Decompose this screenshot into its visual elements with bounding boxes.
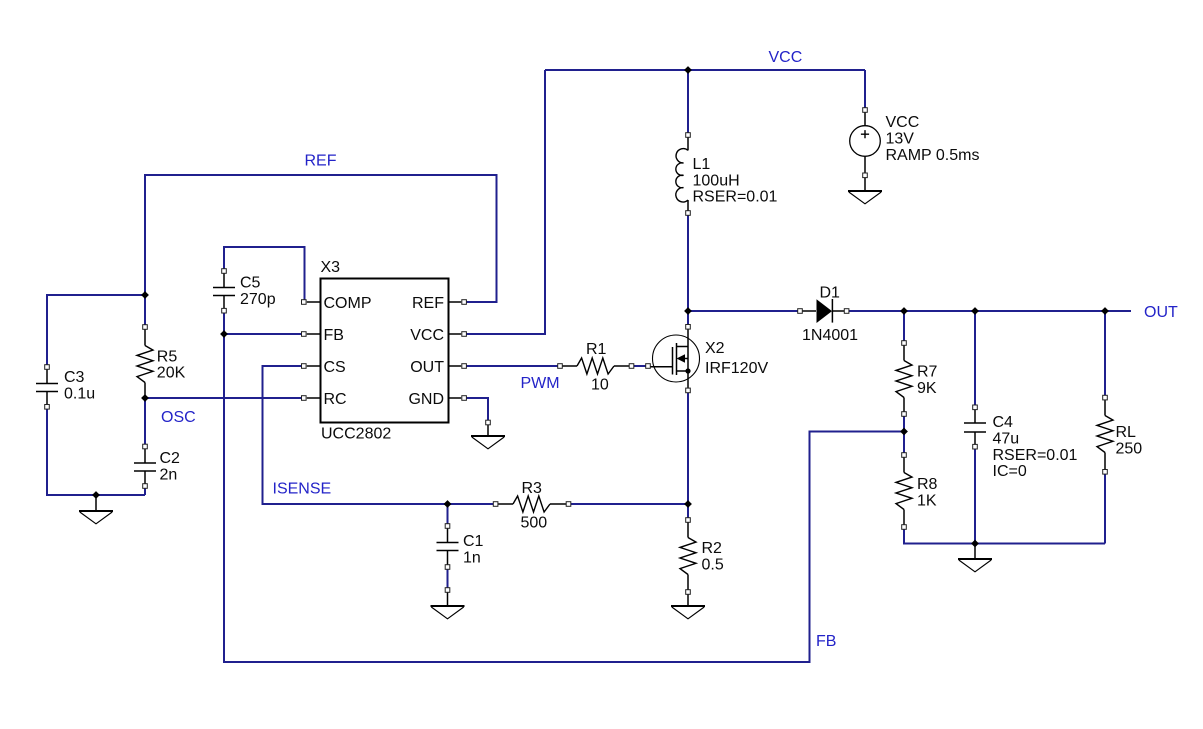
svg-text:OSC: OSC: [161, 409, 196, 426]
svg-text:20K: 20K: [157, 365, 186, 382]
svg-text:250: 250: [1116, 440, 1143, 457]
svg-text:R8: R8: [917, 476, 938, 493]
wire C2 bottom leg: [144, 486, 146, 495]
wire C5 bottom to FB pin: [224, 311, 301, 334]
wire VCC source top leg: [864, 70, 866, 110]
wire ground stub left: [95, 495, 97, 511]
label X3: [321, 259, 341, 276]
node junction ground rail: [971, 540, 979, 548]
value C1 1n: [463, 533, 484, 566]
wire node REF to C3 top: [47, 295, 145, 367]
value R2 0.5: [702, 540, 724, 573]
pin RC: [324, 391, 347, 408]
capacitor C3: [36, 365, 58, 409]
resistor R2: [680, 518, 696, 595]
wire C4 top leg: [974, 311, 976, 407]
wire C4 bottom leg: [974, 447, 976, 544]
wire D1 cathode to OUT label: [847, 310, 1131, 312]
capacitor C5: [213, 269, 235, 313]
resistor R8: [896, 453, 912, 530]
node junction left ground: [92, 491, 100, 499]
svg-text:OUT: OUT: [410, 359, 444, 376]
wire REF net: [145, 175, 497, 327]
svg-text:C2: C2: [160, 450, 181, 467]
ground X3 GND pin: [471, 420, 505, 449]
svg-text:R7: R7: [917, 364, 938, 381]
svg-text:R1: R1: [586, 341, 607, 358]
node junction OUT/R7: [900, 307, 908, 315]
node junction OUT/RL: [1101, 307, 1109, 315]
wire L1 bottom to OUT node: [687, 213, 689, 311]
wire VCC source bottom to ground: [864, 175, 866, 191]
node junction ISENSE/C1: [444, 500, 452, 508]
svg-text:ISENSE: ISENSE: [273, 481, 332, 498]
ground VCC source: [848, 191, 882, 204]
value RL 250: [1116, 424, 1143, 457]
svg-text:RSER=0.01: RSER=0.01: [993, 447, 1078, 464]
wire C1 bottom to ground flag: [447, 567, 449, 590]
value L1 100uH RSER: [693, 156, 778, 206]
node junction R3/R2: [684, 500, 692, 508]
svg-text:PWM: PWM: [521, 375, 560, 392]
svg-text:VCC: VCC: [410, 327, 444, 344]
svg-text:47u: 47u: [993, 430, 1020, 447]
svg-text:IC=0: IC=0: [993, 463, 1027, 480]
wire R7 top leg: [903, 311, 905, 343]
capacitor C2: [134, 444, 156, 488]
pin FB: [324, 327, 344, 344]
pin REF: [412, 295, 444, 312]
wire R1 to gate: [632, 365, 649, 367]
value R8 1K: [917, 476, 938, 509]
capacitor C4: [964, 405, 986, 449]
wire ground stub C1: [447, 590, 449, 606]
svg-text:R5: R5: [157, 348, 178, 365]
svg-text:270p: 270p: [240, 291, 276, 308]
svg-text:X2: X2: [705, 340, 725, 357]
wire ground stub X3: [487, 423, 489, 437]
inductor L1: [676, 133, 690, 216]
net label VCC: [769, 49, 803, 66]
svg-text:10: 10: [591, 377, 609, 394]
net label ISENSE: [273, 481, 332, 498]
svg-text:1n: 1n: [463, 549, 481, 566]
svg-text:VCC: VCC: [886, 114, 920, 131]
svg-text:100uH: 100uH: [693, 172, 740, 189]
resistor R5: [137, 325, 153, 398]
svg-text:0.5: 0.5: [702, 556, 724, 573]
value R1 10: [586, 341, 609, 394]
svg-text:9K: 9K: [917, 380, 937, 397]
svg-text:FB: FB: [324, 327, 344, 344]
pin GND: [408, 391, 444, 408]
svg-text:RC: RC: [324, 391, 347, 408]
svg-text:R2: R2: [702, 540, 723, 557]
diode D1 1N4001: [798, 299, 849, 323]
node junction OUT/C4: [971, 307, 979, 315]
svg-text:CS: CS: [324, 359, 346, 376]
net label FB: [816, 633, 836, 650]
svg-text:13V: 13V: [886, 130, 915, 147]
pin VCC: [410, 327, 444, 344]
svg-text:1K: 1K: [917, 492, 937, 509]
resistor R3: [493, 496, 570, 512]
resistor R7: [896, 341, 912, 417]
net label PWM: [521, 375, 560, 392]
wire X2 drain to OUT node: [687, 311, 689, 327]
wire OSC node to RC pin: [145, 397, 301, 399]
wire L1 top leg: [687, 70, 689, 135]
wire OUT node to D1 anode: [688, 310, 800, 312]
ground output filter: [958, 559, 992, 572]
wire C3 bottom to ground rail: [47, 407, 145, 495]
value C4 47u RSER IC: [993, 414, 1078, 480]
wire X2 source down to R2: [687, 390, 689, 520]
svg-text:X3: X3: [321, 259, 341, 276]
node junction VCC/L1: [684, 66, 692, 74]
svg-text:OUT: OUT: [1144, 304, 1178, 321]
ground R2: [671, 606, 705, 619]
svg-text:GND: GND: [408, 391, 444, 408]
pin OUT: [410, 359, 444, 376]
wire ground stub output: [974, 544, 976, 560]
wire VCC top rail: [545, 69, 865, 71]
value C3 0.1u: [64, 369, 95, 402]
pin CS: [324, 359, 346, 376]
voltage source V1 VCC: [850, 108, 881, 178]
svg-text:FB: FB: [816, 633, 836, 650]
svg-text:COMP: COMP: [324, 295, 372, 312]
transistor Q1: X2 IRF120V MOSFET: [646, 325, 700, 393]
svg-text:IRF120V: IRF120V: [705, 360, 768, 377]
wire C5 top to COMP pin: [224, 247, 305, 302]
svg-text:2n: 2n: [160, 466, 178, 483]
svg-text:0.1u: 0.1u: [64, 385, 95, 402]
node junction R7/R8 FB tap: [900, 428, 908, 436]
wire C1 top leg: [447, 504, 449, 526]
wire R5 bottom to C2 top: [144, 398, 146, 447]
wire R7 bottom to R8 top: [903, 414, 905, 455]
svg-text:D1: D1: [820, 285, 841, 302]
svg-text:RL: RL: [1116, 424, 1137, 441]
net label REF: [305, 153, 337, 170]
wire RL bottom leg: [1104, 472, 1106, 544]
svg-text:REF: REF: [412, 295, 444, 312]
value VCC 13V RAMP: [886, 114, 980, 164]
value R5 20K: [157, 348, 186, 381]
resistor RL: [1097, 395, 1113, 474]
node junction drain/OUT: [684, 307, 692, 315]
wire VCC pin to top rail: [464, 70, 545, 334]
value R7 9K: [917, 364, 938, 397]
svg-text:C1: C1: [463, 533, 484, 550]
ground left: [79, 511, 113, 524]
wire OUT pin to R1: [464, 365, 560, 367]
svg-text:C5: C5: [240, 275, 261, 292]
pin COMP: [324, 295, 372, 312]
svg-text:UCC2802: UCC2802: [321, 426, 391, 443]
svg-text:1N4001: 1N4001: [802, 327, 858, 344]
value D1 1N4001: [802, 285, 858, 344]
svg-text:RSER=0.01: RSER=0.01: [693, 189, 778, 206]
node OSC: [141, 394, 149, 402]
wire R8 bottom to ground rail: [904, 527, 1105, 544]
value R3 500: [521, 480, 548, 532]
svg-text:RAMP 0.5ms: RAMP 0.5ms: [886, 147, 980, 164]
ground C1: [431, 588, 465, 619]
svg-text:R3: R3: [522, 480, 543, 497]
node junction REF/R5: [141, 291, 149, 299]
svg-text:VCC: VCC: [769, 49, 803, 66]
wire FB net vertical and bottom run: [224, 334, 904, 662]
node junction FB/C5: [220, 330, 228, 338]
op-amp U1: X3 UCC2802 controller box: [302, 279, 467, 423]
capacitor C1: [437, 524, 459, 570]
svg-text:L1: L1: [693, 156, 711, 173]
wire R3 right to switch node: [569, 503, 689, 505]
value C2 2n: [160, 450, 181, 483]
wire CS pin to ISENSE run: [263, 366, 496, 504]
svg-text:C3: C3: [64, 369, 85, 386]
label UCC2802: [321, 426, 391, 443]
value C5 270p: [240, 275, 276, 308]
wire R2 bottom ground stub: [687, 592, 689, 606]
svg-text:C4: C4: [993, 414, 1014, 431]
wire RL top leg: [1104, 311, 1106, 398]
svg-text:REF: REF: [305, 153, 337, 170]
svg-text:500: 500: [521, 515, 548, 532]
net label OSC: [161, 409, 196, 426]
value X2 IRF120V: [705, 340, 768, 377]
net label OUT: [1144, 304, 1178, 321]
resistor R1: [558, 358, 634, 374]
wire GND pin to ground flag: [464, 398, 488, 423]
